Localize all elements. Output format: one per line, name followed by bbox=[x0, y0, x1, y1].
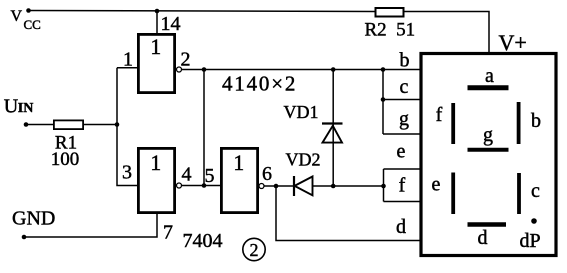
terminal dot VCC bbox=[26, 8, 31, 13]
wire VD1 branch vertical bbox=[332, 70, 334, 187]
svg-text:1: 1 bbox=[123, 49, 133, 71]
bubble pin 4 bbox=[177, 183, 182, 188]
terminal dot UIN bbox=[24, 122, 29, 127]
svg-text:f: f bbox=[399, 175, 406, 197]
svg-text:e: e bbox=[432, 174, 441, 196]
svg-text:b: b bbox=[400, 50, 410, 72]
wire display f stub bbox=[384, 201, 422, 203]
wire pin 2 to pin 5 vertical bbox=[203, 70, 205, 186]
wire display e stub bbox=[384, 168, 422, 170]
svg-text:dP: dP bbox=[520, 230, 541, 252]
wire VCC top rail to V+ bbox=[29, 11, 490, 54]
svg-text:5: 5 bbox=[205, 165, 215, 187]
segment f bar bbox=[451, 103, 455, 144]
wire net B: pin 2 to display pin b bbox=[182, 69, 422, 71]
inverter U1A pins 1-2 bbox=[138, 34, 174, 92]
svg-text:IN: IN bbox=[18, 101, 34, 116]
svg-text:d: d bbox=[478, 227, 488, 249]
svg-text:g: g bbox=[399, 108, 409, 130]
segment c bar bbox=[517, 173, 521, 214]
display DS1 outline bbox=[421, 54, 556, 256]
bubble pin 2 bbox=[177, 67, 182, 72]
figure number circled 2 bbox=[243, 238, 265, 260]
svg-text:U: U bbox=[4, 96, 19, 118]
svg-text:d: d bbox=[396, 216, 406, 238]
wire net F: pin 6 through VD2 to e/f tie bbox=[264, 185, 384, 187]
junction VD1 bottom bbox=[331, 184, 336, 189]
svg-text:4: 4 bbox=[182, 164, 192, 186]
svg-text:V+: V+ bbox=[499, 30, 527, 55]
svg-text:100: 100 bbox=[51, 149, 80, 170]
svg-text:CC: CC bbox=[24, 17, 41, 32]
inverter U1C pins 5-6 bbox=[221, 148, 257, 212]
junction pin 2 / pin 5 bbox=[202, 67, 207, 72]
junction b tie bbox=[381, 67, 386, 72]
wire display c stub bbox=[383, 99, 421, 101]
decimal point dP dot bbox=[531, 218, 537, 224]
wire pin 4 output to pin 5 bbox=[182, 185, 222, 187]
svg-text:GND: GND bbox=[12, 207, 55, 229]
svg-text:7: 7 bbox=[163, 222, 173, 244]
svg-text:a: a bbox=[485, 65, 494, 87]
svg-text:e: e bbox=[397, 141, 406, 163]
svg-text:1: 1 bbox=[150, 34, 161, 59]
wire tie b-c-g bbox=[382, 70, 384, 135]
junction e/f tie bbox=[381, 184, 386, 189]
wire GND to pin 7 bbox=[24, 214, 157, 237]
wire display g stub bbox=[383, 133, 421, 135]
svg-text:4140×2: 4140×2 bbox=[222, 72, 297, 96]
svg-text:2: 2 bbox=[181, 49, 191, 71]
segment a bar bbox=[468, 85, 509, 90]
inverter U1B pins 3-4 bbox=[138, 148, 174, 212]
wire UIN to R1 bbox=[26, 124, 54, 126]
resistor R1 bbox=[54, 120, 83, 129]
svg-text:6: 6 bbox=[262, 163, 272, 185]
svg-text:VD1: VD1 bbox=[284, 102, 319, 122]
wire pin 14 bbox=[156, 11, 158, 34]
wire tie e-f bbox=[383, 169, 385, 202]
svg-text:VD2: VD2 bbox=[286, 150, 321, 170]
segment g bar bbox=[468, 148, 509, 152]
segment b bar bbox=[517, 102, 521, 144]
svg-text:2: 2 bbox=[250, 240, 259, 260]
diode VD2 bbox=[294, 176, 313, 196]
svg-text:3: 3 bbox=[122, 162, 132, 184]
svg-text:c: c bbox=[531, 180, 540, 202]
junction R1 to vertical bbox=[115, 122, 120, 127]
wire UIN input vertical to pin 3 bbox=[117, 68, 138, 186]
segment d bar bbox=[468, 222, 507, 227]
svg-text:1: 1 bbox=[150, 150, 161, 175]
junction pin 14 node bbox=[155, 9, 160, 14]
wire pin 1 input bbox=[117, 67, 138, 69]
junction VD1 top bbox=[331, 67, 336, 72]
wire net D: pin 6 node to display pin d bbox=[276, 186, 421, 241]
diode VD1 bbox=[322, 124, 343, 143]
wire R1 to input node bbox=[84, 124, 117, 126]
svg-text:V: V bbox=[11, 8, 23, 25]
svg-text:14: 14 bbox=[161, 13, 181, 35]
bubble pin 6 bbox=[259, 184, 264, 189]
resistor R2 bbox=[376, 8, 404, 17]
junction c tie bbox=[381, 97, 386, 102]
svg-text:R2 51: R2 51 bbox=[365, 20, 416, 41]
svg-text:1: 1 bbox=[233, 150, 244, 175]
svg-text:f: f bbox=[436, 104, 443, 126]
svg-text:g: g bbox=[483, 124, 493, 146]
segment e bar bbox=[451, 173, 455, 215]
svg-text:c: c bbox=[400, 76, 409, 98]
junction pin 4 / pin 5 bbox=[202, 183, 207, 188]
svg-text:7404: 7404 bbox=[183, 230, 223, 252]
svg-text:b: b bbox=[531, 110, 541, 132]
terminal dot GND bbox=[22, 235, 27, 240]
junction pin 6 / net D bbox=[274, 184, 279, 189]
